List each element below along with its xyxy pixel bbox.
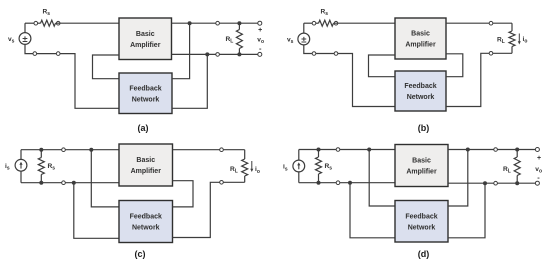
wire source bottom rail (d) <box>299 172 397 183</box>
terminal output port bottom (b) <box>489 52 493 56</box>
terminal output port bottom (d) <box>494 181 498 185</box>
terminal bottom port right (b) <box>334 52 338 56</box>
terminal output port top (d) <box>494 148 498 152</box>
junction feedback tap top (c) <box>89 148 93 152</box>
resistor RL (c) <box>242 150 248 183</box>
terminal input port top (c) <box>62 148 66 152</box>
junction output bottom tap (a) <box>205 52 209 56</box>
junction RL top (a) <box>237 21 241 25</box>
junction Rs bottom (d) <box>317 181 321 185</box>
wire amplifier output top rail (b) <box>446 22 512 24</box>
terminal vo plus (a) <box>258 21 262 25</box>
wire amplifier output top rail (a) <box>172 22 260 24</box>
wire Rs to amplifier (a) <box>56 22 120 24</box>
wire amplifier output low to feedback sense high (b) <box>446 54 463 77</box>
terminal output port top (b) <box>489 21 493 25</box>
wire source top rail (d) <box>299 150 397 161</box>
basic amplifier block (a) <box>119 18 172 60</box>
svg-text:Amplifier: Amplifier <box>131 168 162 175</box>
resistor RL (a) <box>236 23 242 54</box>
wire source top to Rs (b) <box>304 23 319 33</box>
wire RL return to feedback (c) <box>173 182 245 237</box>
wire source bottom rail (b) <box>304 45 395 107</box>
svg-text:Network: Network <box>132 225 160 232</box>
terminal output port bottom (a) <box>216 53 220 57</box>
voltage source Vs (a) <box>19 33 31 45</box>
svg-text:±: ± <box>22 34 27 45</box>
svg-text:Feedback: Feedback <box>405 213 437 220</box>
svg-text:Feedback: Feedback <box>129 85 161 92</box>
terminal bottom port left (a) <box>33 52 37 56</box>
basic amplifier block (c) <box>119 144 173 186</box>
resistor Rs (d) <box>316 150 322 183</box>
svg-text:Amplifier: Amplifier <box>406 169 437 176</box>
current source Is (d) <box>293 160 305 172</box>
voltage source Vs (b) <box>298 33 310 45</box>
terminal vo minus (a) <box>258 52 262 56</box>
wire feedback return bottom (c) <box>74 183 119 239</box>
junction Rs bottom (c) <box>39 181 43 185</box>
terminal output port top (c) <box>220 148 224 152</box>
svg-text:Basic: Basic <box>136 157 155 164</box>
label io arrow (c) <box>250 161 253 172</box>
wire RL return to feedback (b) <box>446 53 512 106</box>
terminal input port top-left (a) <box>34 21 38 25</box>
svg-text:Amplifier: Amplifier <box>405 42 436 49</box>
feedback network block (d) <box>395 201 448 243</box>
basic amplifier block (b) <box>395 18 446 59</box>
wire feedback return bottom (d) <box>350 183 397 238</box>
junction Rs top (d) <box>317 148 321 152</box>
junction feedback tap bottom (d) <box>348 181 352 185</box>
wire feedback return top (c) <box>91 150 119 207</box>
terminal bottom port left (b) <box>312 52 316 56</box>
svg-text:Feedback: Feedback <box>130 214 162 221</box>
terminal input port top-right (b) <box>334 21 338 25</box>
feedback network block (b) <box>395 71 446 111</box>
svg-text:Network: Network <box>407 94 435 101</box>
label io arrow (b) <box>518 34 521 45</box>
current source Is (c) <box>15 159 27 171</box>
junction RL bottom (d) <box>515 181 519 185</box>
svg-text:Amplifier: Amplifier <box>130 42 161 49</box>
feedback network block (a) <box>119 73 172 114</box>
junction output top tap (a) <box>188 21 192 25</box>
svg-text:±: ± <box>301 34 306 45</box>
junction Rs top (c) <box>39 148 43 152</box>
terminal output port bottom (c) <box>220 181 224 185</box>
wire source top rail (c) <box>21 150 119 160</box>
wire source top to Rs (a) <box>25 23 41 32</box>
wire source bottom rail (c) <box>21 171 119 183</box>
svg-text:(c): (c) <box>135 249 146 259</box>
wire feedback return top (d) <box>369 150 397 207</box>
svg-text:(a): (a) <box>138 123 149 133</box>
feedback network block (c) <box>119 201 173 243</box>
svg-text:(b): (b) <box>418 123 430 133</box>
junction feedback tap top (d) <box>367 148 371 152</box>
terminal input port bottom (c) <box>62 181 66 185</box>
svg-text:Network: Network <box>132 96 160 103</box>
resistor Rs (b) <box>319 20 334 26</box>
wire Rs to amplifier (b) <box>334 22 396 24</box>
terminal output port top (a) <box>216 21 220 25</box>
junction feedback tap bottom (c) <box>72 181 76 185</box>
junction RL bottom (a) <box>237 52 241 56</box>
svg-text:Network: Network <box>408 224 436 231</box>
svg-text:+: + <box>258 27 262 34</box>
junction output top tap (d) <box>466 148 470 152</box>
terminal input port top-right (a) <box>56 21 60 25</box>
resistor Rs (c) <box>38 150 44 183</box>
svg-text:Basic: Basic <box>412 158 431 165</box>
resistor RL (d) <box>514 150 520 184</box>
resistor Rs (a) <box>41 20 56 26</box>
wire feedback sense bottom (a) <box>172 54 207 108</box>
svg-text:Basic: Basic <box>136 31 155 38</box>
terminal vo plus (d) <box>535 148 539 152</box>
wire amplifier input low to feedback output high (a) <box>93 55 120 79</box>
wire amplifier output bottom rail (a) <box>172 53 260 55</box>
wire feedback sense top (a) <box>172 23 190 78</box>
svg-text:+: + <box>537 155 541 162</box>
basic amplifier block (d) <box>395 145 448 187</box>
junction RL top (d) <box>515 148 519 152</box>
terminal input port bottom (d) <box>336 181 340 185</box>
svg-text:Feedback: Feedback <box>404 83 436 90</box>
wire feedback sense bottom (d) <box>448 183 485 238</box>
wire amplifier output top rail (c) <box>173 149 245 151</box>
wire amplifier output low to feedback sense high (c) <box>173 181 194 207</box>
svg-text:(d): (d) <box>418 249 430 259</box>
junction output bottom tap (d) <box>483 181 487 185</box>
terminal bottom port right (a) <box>56 52 60 56</box>
wire amplifier output bottom rail (d) <box>448 182 537 184</box>
svg-text:Basic: Basic <box>411 31 430 38</box>
wire amplifier input low to feedback output high (b) <box>369 55 396 77</box>
terminal input port top (d) <box>336 148 340 152</box>
wire feedback sense top (d) <box>448 150 468 207</box>
resistor RL (b) <box>509 23 515 53</box>
wire source bottom rail (a) <box>25 44 119 108</box>
wire amplifier output top rail (d) <box>448 149 537 151</box>
terminal vo minus (d) <box>535 181 539 185</box>
terminal input port top-left (b) <box>312 21 316 25</box>
